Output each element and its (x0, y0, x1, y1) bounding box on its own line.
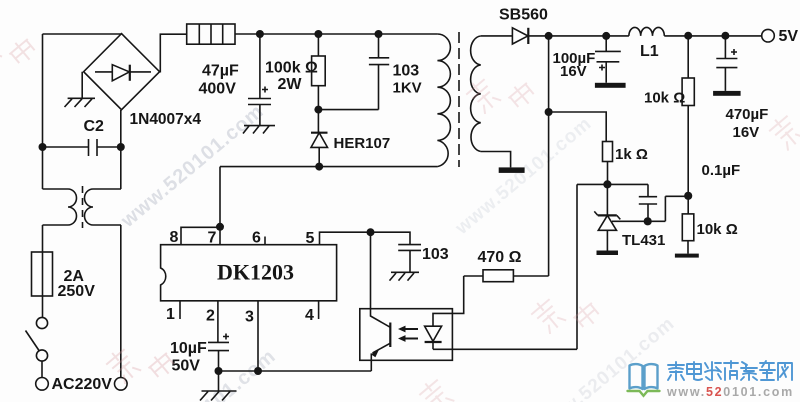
wire LED cathode to TL431 (433, 348, 577, 350)
svg-text:47µF: 47µF (202, 63, 239, 80)
resistor 10k upper right (687, 36, 689, 78)
transformer T1 primary winding (437, 34, 450, 167)
svg-text:100k Ω: 100k Ω (265, 60, 318, 77)
choke core dashed (82, 186, 84, 228)
wire feedback vertical from out rail (548, 36, 550, 276)
svg-text:1N4007x4: 1N4007x4 (130, 111, 202, 128)
pin 2 (217, 301, 219, 343)
svg-text:AC220V: AC220V (52, 376, 113, 393)
wire secondary bottom (481, 152, 511, 168)
wire top-left from bridge top to left rail (43, 33, 122, 35)
watermark diag text 4 (534, 313, 679, 402)
earth ground under 103 (390, 272, 420, 280)
svg-text:250V: 250V (58, 283, 96, 300)
capacitor 470uF 16V (716, 36, 737, 91)
node fb 112 (545, 108, 553, 116)
node snubber (314, 106, 322, 114)
watermark pink chars bottom center (416, 376, 455, 402)
pin 1 (179, 301, 181, 319)
svg-text:HER107: HER107 (334, 135, 391, 152)
transformer T1 core dashed (458, 32, 460, 167)
watermark diag text 1 (116, 100, 268, 232)
svg-text:10k Ω: 10k Ω (697, 221, 738, 238)
earth ground at bridge (65, 72, 96, 107)
wire fb to 1k (549, 112, 607, 142)
watermark diag text 3 (451, 113, 596, 239)
resistor 470ohm (464, 275, 483, 277)
svg-text:7: 7 (208, 230, 217, 247)
ground bar 100uF (595, 83, 626, 88)
svg-text:0.1µF: 0.1µF (702, 162, 741, 179)
watermark pink chars right edge (766, 112, 800, 152)
svg-text:50V: 50V (172, 358, 201, 375)
svg-text:SB560: SB560 (499, 7, 548, 24)
watermark pink chars left edge (0, 12, 39, 87)
node C2 right (117, 143, 125, 151)
optocoupler box (360, 309, 453, 361)
watermark pink chars mid bottom (528, 276, 603, 351)
logo book icon (630, 364, 658, 389)
svg-text:DK1203: DK1203 (217, 260, 294, 285)
watermark pink chars left (103, 326, 178, 401)
pin 5 (320, 232, 411, 245)
node out 606 (602, 32, 610, 40)
IC DK1203 body (161, 245, 337, 301)
wire top rail (235, 33, 437, 35)
output terminal 5V (762, 29, 775, 42)
AC terminal right (115, 378, 128, 391)
resistor 10k lower right (687, 196, 689, 214)
svg-text:10µF: 10µF (170, 340, 207, 357)
svg-text:4: 4 (305, 307, 314, 324)
opto phototransistor (371, 232, 391, 327)
watermark diag text 2 (128, 345, 280, 402)
pin 6 (264, 237, 266, 245)
opto light arrows (403, 329, 418, 339)
wire secondary top to SB560 (481, 35, 513, 37)
svg-text:10k Ω: 10k Ω (644, 90, 685, 107)
ground bar TL431 (597, 251, 619, 256)
wire right AC rail (120, 110, 122, 378)
ground bar 470uF (713, 91, 741, 96)
node divider (684, 192, 692, 200)
wire bridge plus to filter (160, 34, 187, 71)
capacitor 10uF 50V (208, 342, 229, 371)
node pin3 bottom (254, 367, 262, 375)
svg-text:TL431: TL431 (622, 232, 665, 249)
diode HER107 (311, 110, 328, 167)
node out 725 (721, 32, 729, 40)
common-mode choke T0 left winding (43, 189, 77, 252)
node HER107 anode (315, 163, 323, 171)
svg-text:400V: 400V (199, 81, 237, 98)
wire bottom rail (219, 370, 372, 372)
wire ref network (612, 196, 688, 221)
svg-text:1k Ω: 1k Ω (615, 146, 648, 163)
svg-text:6: 6 (252, 230, 261, 247)
svg-text:16V: 16V (733, 124, 760, 141)
svg-text:16V: 16V (560, 63, 587, 80)
svg-text:8: 8 (170, 229, 179, 246)
node pin7 (216, 223, 224, 231)
capacitor 103 at pin5 (398, 245, 421, 273)
AC terminal left (36, 378, 49, 391)
opto LED (425, 326, 442, 349)
svg-text:470µF: 470µF (726, 106, 769, 123)
node top rail 100k (314, 30, 322, 38)
svg-text:www.520101.com: www.520101.com (451, 113, 596, 239)
svg-text:5: 5 (306, 230, 315, 247)
TL431 (598, 184, 616, 250)
switch S1 (36, 317, 47, 328)
bridge rectifier 1N4007x4 diamond (84, 34, 160, 110)
capacitor 100uF 16V (595, 36, 621, 83)
svg-text:2: 2 (206, 308, 215, 325)
resistor 1k (603, 142, 613, 162)
node top rail 103 (375, 30, 383, 38)
inductor L1 (629, 27, 664, 35)
earth ground under 47uF (243, 126, 275, 134)
logo chinese characters (668, 361, 792, 380)
svg-text:3: 3 (245, 309, 254, 326)
svg-text:103: 103 (422, 246, 449, 263)
node top rail 47uF (256, 30, 264, 38)
ground bar secondary (499, 167, 525, 173)
svg-text:103: 103 (393, 63, 420, 80)
capacitor 103 1KV (369, 34, 389, 110)
pin 3 (257, 301, 259, 371)
opto emitter arrowhead (371, 350, 379, 357)
svg-text:5V: 5V (779, 28, 799, 45)
wire cathode node horiz (577, 183, 648, 185)
pin 4 (318, 301, 320, 319)
node TL431 cathode (603, 180, 611, 188)
node out 548 (545, 32, 553, 40)
diode SB560 (512, 28, 548, 44)
EMI filter inductor block (187, 24, 235, 44)
svg-text:470 Ω: 470 Ω (478, 249, 522, 266)
svg-text:2W: 2W (278, 76, 303, 93)
node out 688 (684, 32, 692, 40)
capacitor 47uF 400V (248, 34, 271, 126)
wire output rail (549, 35, 629, 37)
wire left down to opto (576, 184, 578, 349)
wire left rail (42, 34, 44, 189)
watermark pink chars mid top (463, 56, 538, 131)
svg-text:C2: C2 (84, 118, 105, 135)
capacitor C2 (43, 139, 122, 156)
logo book base green (628, 391, 660, 396)
wire LED anode path (433, 276, 464, 326)
capacitor comp 0.1uF (639, 184, 657, 221)
svg-text:1: 1 (166, 306, 175, 323)
wire primary bottom rail (220, 166, 437, 168)
svg-text:1KV: 1KV (393, 80, 422, 97)
pin 8 (181, 227, 220, 244)
bridge inner diode (95, 65, 151, 81)
earth ground bottom rail (200, 371, 237, 401)
wire output rail right (664, 35, 761, 37)
node ref (644, 217, 652, 225)
ground bar 10k lower (675, 254, 699, 258)
fuse 2A 250V (32, 252, 53, 296)
transformer T1 secondary winding (471, 36, 481, 152)
node pin5 junction (367, 228, 375, 236)
node C2 left (39, 143, 47, 151)
svg-text:L1: L1 (640, 43, 659, 60)
wire snubber bottom node (318, 109, 378, 111)
common-mode choke T0 right winding (85, 189, 122, 225)
wire rail down to pin7 (219, 167, 221, 245)
svg-text:www.520101.com: www.520101.com (666, 385, 794, 399)
node 10uF bottom (215, 367, 223, 375)
resistor 100k 2W (317, 34, 319, 56)
